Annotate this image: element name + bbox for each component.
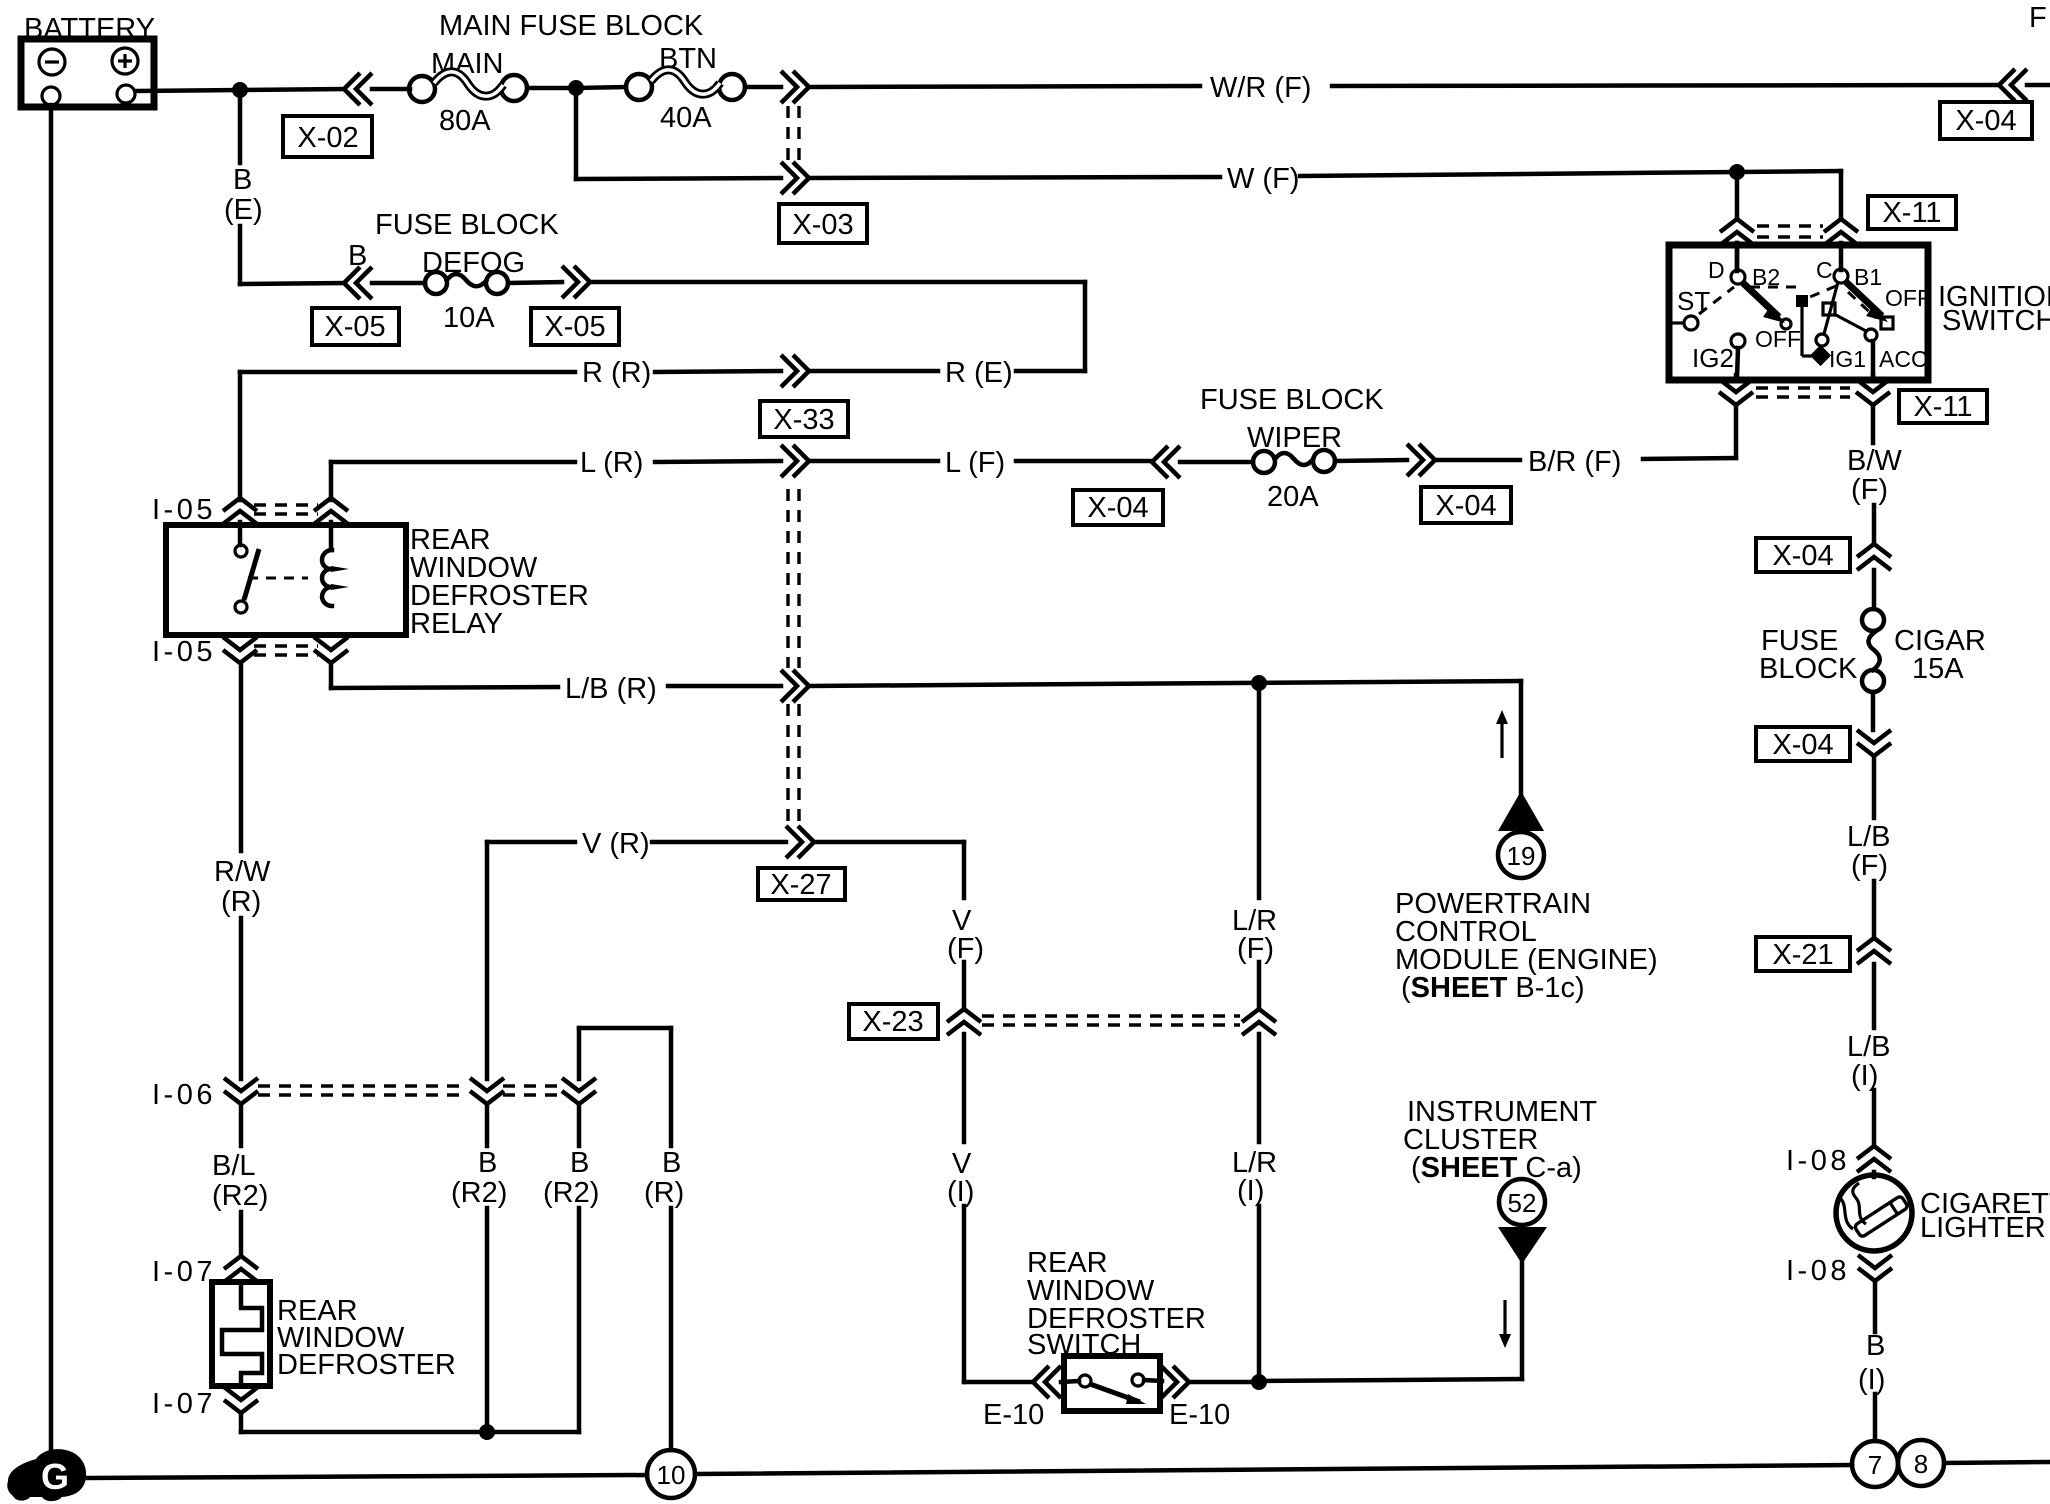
connector chevron I-08 top [1857,1146,1891,1172]
svg-text:7: 7 [1868,1450,1882,1480]
wire B/R to IG2 [1734,405,1739,458]
wire W/R (F) [745,85,781,90]
svg-text:C: C [1816,257,1833,283]
connector box X-27 [758,868,845,901]
connector X-27 dashed link [788,489,799,668]
powertrain control module arrow [1498,791,1544,831]
svg-text:G: G [41,1456,69,1497]
svg-text:X-11: X-11 [1913,391,1972,423]
svg-text:(F): (F) [1851,474,1888,506]
label L/R (I) [1232,1147,1277,1207]
svg-text:B: B [348,240,367,272]
label B (R2) first [451,1147,507,1209]
svg-text:I-07: I-07 [152,1256,216,1288]
connector box X-04 right bottom [1756,727,1850,761]
connector chevron X-04 wiper right [1407,444,1435,476]
node BTN junction [568,80,584,96]
svg-text:(E): (E) [224,194,263,226]
node W (F) junction at ignition [1729,164,1745,180]
connector X-03 dashed link [788,106,799,162]
svg-text:E-10: E-10 [983,1399,1044,1431]
connector chevron X-27 on V [786,826,814,858]
label L/R (F) [1232,905,1277,965]
connector chevron E-10 right [1161,1366,1189,1398]
label POWERTRAIN CONTROL MODULE [1395,888,1658,1004]
label B (I) [1858,1330,1885,1396]
svg-text:(R2): (R2) [543,1177,599,1209]
svg-text:10A: 10A [443,302,495,334]
svg-text:8: 8 [1914,1449,1928,1479]
connector box X-04 wiper right [1421,487,1511,523]
label B/L (R2) [212,1150,268,1212]
connector I-07 bottom chevron [224,1387,258,1413]
connector chevron X-05 left [344,267,372,299]
label L/B (I) [1847,1031,1891,1092]
svg-text:(F): (F) [1237,933,1274,965]
label B (R2) second [543,1147,599,1209]
wire to MAIN fuse [240,89,345,90]
svg-text:(R2): (R2) [212,1180,268,1212]
svg-text:BLOCK: BLOCK [1759,653,1858,685]
svg-text:X-04: X-04 [1087,492,1148,524]
wire V (I) to switch [964,1380,1034,1385]
svg-text:X-03: X-03 [792,209,853,241]
connector box X-04 right top [1756,538,1850,572]
svg-text:I-06: I-06 [152,1079,216,1111]
wire B (R2) second column [579,1028,671,1432]
svg-text:(R): (R) [221,886,261,918]
node circuit ref 19 [1498,832,1544,878]
wire R (E) corner [1083,282,1088,371]
svg-text:V (R): V (R) [582,828,650,860]
svg-text:(SHEET B-1c): (SHEET B-1c) [1401,972,1585,1004]
connector I-05 top chevrons [223,498,257,524]
svg-text:B/R (F): B/R (F) [1528,446,1621,478]
svg-text:W (F): W (F) [1227,163,1299,195]
label CIGARETTE LIGHTER [1920,1188,2050,1244]
wire B (E) [240,90,345,284]
svg-text:R/W: R/W [214,856,271,888]
fuse DEFOG 10A [422,247,525,334]
connector chevron E-10 left [1033,1366,1061,1398]
svg-text:X-21: X-21 [1772,939,1833,971]
fuse BTN 40A [576,43,745,134]
connector box X-23 [849,1004,938,1039]
connector chevron X-33 on R [781,355,809,387]
svg-text:B: B [478,1147,497,1179]
svg-text:B/L: B/L [212,1150,256,1182]
svg-text:L/B (R): L/B (R) [565,673,657,705]
rear window defroster element [212,1282,270,1386]
connector box X-21 [1756,937,1850,971]
wire defroster to B junction [241,1414,579,1432]
node L/R branch junction [1251,675,1267,691]
wire V (F) column [962,842,967,1007]
svg-text:SWITCH: SWITCH [1942,305,2050,337]
svg-text:X-33: X-33 [773,404,834,436]
svg-text:(R2): (R2) [451,1177,507,1209]
node defroster ground junction [479,1424,495,1440]
node circuit ref 52 [1499,1179,1545,1225]
svg-text:B: B [1866,1330,1885,1362]
connector X-11 bottom chevrons [1719,379,1753,405]
connector box X-02 [283,116,372,157]
svg-text:I-07: I-07 [152,1388,216,1420]
svg-text:R (R): R (R) [582,357,651,389]
wire B/W (F) [1873,405,1874,542]
connector chevron X-21 [1857,938,1891,964]
svg-text:10: 10 [657,1460,686,1490]
svg-text:B: B [570,1147,589,1179]
fuse CIGAR 15A [1759,609,1986,692]
connector box X-11 bottom [1899,390,1987,423]
svg-text:E-10: E-10 [1169,1399,1230,1431]
connector box X-05 left [312,308,399,345]
wire L/R (F) column [1257,683,1262,1007]
wire to ignition C terminal [1737,171,1841,219]
label L/B (F) [1847,821,1891,882]
svg-text:X-04: X-04 [1435,490,1496,522]
svg-text:RELAY: RELAY [410,608,503,640]
fuse WIPER 20A [1247,422,1342,513]
label REAR WINDOW DEFROSTER [277,1295,456,1381]
svg-text:I-05: I-05 [152,494,216,526]
connector chevron X-04 top right [1999,69,2027,101]
svg-text:D: D [1708,257,1725,283]
connector chevron X-33 on L [781,445,809,477]
connector chevron X-05 right [562,266,590,298]
ignition switch box [1669,245,1928,380]
svg-text:(I): (I) [947,1176,974,1208]
label INSTRUMENT CLUSTER [1403,1096,1597,1184]
label V (F) [947,905,984,965]
svg-text:X-02: X-02 [297,122,358,154]
wire R/W (R) column [239,663,244,1079]
svg-text:X-04: X-04 [1955,105,2016,137]
svg-text:F: F [2029,2,2047,34]
connector X-23 chevrons [947,1009,981,1035]
wire L to relay coil [329,462,334,500]
connector chevron X-02 [344,73,372,105]
connector chevron X-04 wiper left [1152,446,1180,478]
wire to ignition D terminal [1735,172,1740,219]
connector box X-03 [779,204,867,243]
svg-text:X-23: X-23 [862,1006,923,1038]
wire to powertrain control module [1519,681,1524,794]
label V (I) [947,1148,974,1208]
connector I-05 bottom chevrons [223,637,257,663]
wire B (R) column [669,1028,674,1450]
wire MAIN to BTN junction [527,86,576,91]
label REAR WINDOW DEFROSTER RELAY [410,524,589,640]
connector I-07 top chevron [224,1256,258,1282]
svg-text:DEFROSTER: DEFROSTER [277,1349,456,1381]
ground G [7,1449,86,1501]
svg-text:(I): (I) [1851,1060,1878,1092]
svg-text:I-08: I-08 [1786,1145,1850,1177]
wire battery positive to junction [136,90,240,91]
svg-text:OFF: OFF [1755,326,1801,352]
svg-text:(I): (I) [1858,1364,1885,1396]
wire R line [240,371,1085,372]
wire B/L (R2) column [239,1105,244,1254]
svg-text:52: 52 [1508,1188,1537,1218]
svg-text:19: 19 [1507,841,1536,871]
svg-text:(F): (F) [1851,850,1888,882]
svg-text:B/W: B/W [1847,445,1902,477]
node ground ref 10 [647,1450,695,1498]
wire L/R (I) column [1257,1034,1262,1381]
svg-text:(I): (I) [1237,1175,1264,1207]
svg-text:X-11: X-11 [1882,197,1941,229]
svg-text:B1: B1 [1854,264,1882,290]
wire chevron to box D [1735,243,1740,271]
ignition internals [1669,243,1931,378]
svg-text:X-04: X-04 [1772,729,1833,761]
svg-text:L/B: L/B [1847,1031,1891,1063]
label REAR WINDOW DEFROSTER SWITCH [1027,1247,1206,1361]
wire V (R) [487,840,964,845]
wire battery negative to ground [49,105,54,1455]
powertrain arrow marker [1496,710,1508,758]
svg-text:X-04: X-04 [1772,540,1833,572]
fuse MAIN 80A [409,48,527,137]
svg-text:IG2: IG2 [1692,343,1734,373]
svg-text:FUSE BLOCK: FUSE BLOCK [1200,384,1384,416]
label B (E) [224,164,263,226]
connector box X-04 top right [1940,102,2032,139]
svg-text:X-05: X-05 [324,311,385,343]
svg-text:B: B [662,1147,681,1179]
svg-text:L (R): L (R) [580,447,643,479]
connector box X-04 wiper left [1073,490,1163,525]
connector chevron X-03 top [781,71,809,103]
svg-text:I-08: I-08 [1786,1255,1850,1287]
wire R to relay switch [238,372,243,500]
svg-text:L (F): L (F) [945,447,1005,479]
rear window defroster switch [1064,1356,1160,1411]
connector chevron I-08 bottom [1858,1255,1892,1281]
label B/W (F) [1847,445,1902,506]
connector X-11 top chevrons [1720,219,1754,245]
connector box X-05 right [531,308,619,345]
svg-text:ST: ST [1677,286,1710,316]
node defroster switch junction [1251,1374,1267,1390]
svg-text:L/B: L/B [1847,821,1891,853]
svg-text:15A: 15A [1912,653,1964,685]
wire W (F) [576,88,781,179]
wire B (R2) first column [485,842,490,1432]
node battery feed junction [232,82,248,98]
label IGNITION SWITCH [1938,281,2050,337]
connector I-06 chevrons [224,1078,258,1104]
wire chevron to box C [1839,243,1844,270]
svg-text:LIGHTER: LIGHTER [1920,1212,2046,1244]
node ground ref 7 [1852,1441,1898,1487]
connector box X-11 top [1868,196,1956,229]
connector chevron X-27 on L/B [781,670,809,702]
cluster arrow marker [1499,1300,1511,1348]
svg-text:FUSE BLOCK: FUSE BLOCK [375,209,559,241]
svg-text:B: B [233,164,252,196]
connector chevron X-04 right column top [1857,544,1891,570]
label R/W (R) [214,856,271,918]
svg-text:IG1: IG1 [1829,346,1866,372]
svg-text:MAIN FUSE BLOCK: MAIN FUSE BLOCK [439,10,704,42]
svg-text:X-27: X-27 [770,869,831,901]
svg-text:I-05: I-05 [152,636,216,668]
wire V (I) column [962,1034,967,1382]
svg-text:ACC: ACC [1879,346,1928,372]
svg-text:X-05: X-05 [544,311,605,343]
cigarette lighter [1836,1175,1912,1251]
svg-text:(R): (R) [644,1177,684,1209]
svg-text:(F): (F) [947,933,984,965]
wire L/B (R) [331,663,1521,688]
svg-text:(SHEET C-a): (SHEET C-a) [1411,1152,1582,1184]
connector chevron X-03 bottom [781,162,809,194]
svg-text:20A: 20A [1267,481,1319,513]
battery [21,13,155,107]
wire L line [331,461,1150,462]
label B (R) [644,1147,684,1209]
svg-text:OFF: OFF [1885,285,1931,311]
connector box X-33 [760,401,848,437]
svg-text:40A: 40A [660,102,712,134]
instrument cluster arrow [1498,1227,1547,1264]
connector chevron X-04 right column bottom [1857,730,1891,756]
svg-text:R (E): R (E) [945,357,1013,389]
svg-text:80A: 80A [439,105,491,137]
wire ground bus [88,1462,2050,1478]
wire cluster to switch line [1259,1262,1522,1381]
rear window defroster relay [166,525,406,635]
svg-text:W/R (F): W/R (F) [1210,72,1311,104]
node ground ref 8 [1898,1440,1944,1486]
